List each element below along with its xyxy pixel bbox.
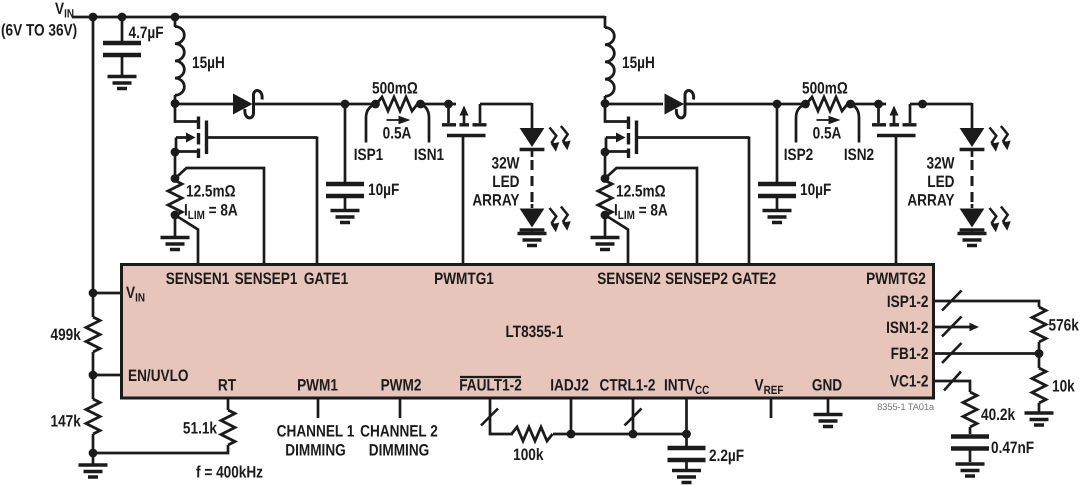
svg-text:0.5A: 0.5A (813, 125, 842, 143)
svg-text:LT8355-1: LT8355-1 (505, 323, 563, 341)
wire 10k to ground (1038, 403, 1041, 412)
bus slash ISP1-2 (942, 291, 962, 311)
light arrows LED D3 (550, 207, 571, 233)
ground C5 (956, 464, 985, 476)
bus slash FAULT1-2 (481, 409, 498, 426)
junction output node ch2 (918, 100, 927, 109)
svg-text:500mΩ: 500mΩ (372, 80, 418, 98)
wire switch node 2 (605, 103, 663, 106)
junction C2 tap (341, 100, 350, 109)
wire IADJ2 stub (570, 398, 573, 434)
wire SENSEP2 (605, 168, 697, 265)
svg-text:576k: 576k (1049, 317, 1080, 335)
svg-text:ILIM = 8A: ILIM = 8A (614, 202, 668, 223)
resistor R5 51.1k (221, 410, 235, 445)
wire RT return to ground rail (93, 445, 228, 453)
wire R2 bottom to ground (174, 215, 177, 237)
svg-text:2.2µF: 2.2µF (709, 447, 744, 465)
svg-text:IADJ2: IADJ2 (550, 377, 589, 395)
svg-text:8355-1 TA01a: 8355-1 TA01a (877, 402, 935, 413)
wire Q1 gate to GATE1 (207, 137, 318, 266)
svg-text:GATE2: GATE2 (732, 270, 776, 288)
wire switch node 1 (175, 103, 233, 106)
junction L1 switch node (171, 99, 180, 108)
svg-text:FAULT1-2: FAULT1-2 (459, 377, 522, 395)
current arrow 0.5A ch2 (817, 119, 830, 121)
ground C2 (331, 211, 360, 223)
svg-text:12.5mΩ: 12.5mΩ (186, 183, 236, 201)
junction R2 bottom SENSEN tap (171, 211, 180, 220)
svg-text:PWM2: PWM2 (381, 377, 422, 395)
wire R4 bottom to ground (604, 215, 607, 237)
junction L2 switch node (601, 99, 610, 108)
inductor L1 15uH (174, 17, 177, 103)
wire RT pin (227, 398, 230, 410)
wire Q2 gate to PWMTG1 (462, 136, 465, 266)
ground left rail (79, 465, 108, 477)
LED D5 top of 32W array ch2 (960, 128, 985, 150)
junction top rail / left rail (89, 13, 98, 22)
svg-text:SENSEN1: SENSEN1 (166, 270, 230, 288)
diode D4 (665, 94, 685, 115)
wire EN/UVLO pin stub (93, 374, 122, 377)
resistor 499k (86, 317, 100, 352)
svg-text:CHANNEL 2: CHANNEL 2 (360, 423, 438, 441)
wire VC1-2 (934, 381, 970, 392)
wire 576k to FB node (1038, 342, 1041, 354)
junction Q2 source node (444, 100, 453, 109)
capacitor C2 10uF (344, 104, 347, 210)
svg-text:EN/UVLO: EN/UVLO (128, 367, 189, 385)
svg-text:FB1-2: FB1-2 (891, 345, 929, 363)
svg-text:ISP1: ISP1 (354, 146, 384, 164)
wire Q4 drain to LED2 string (910, 103, 972, 106)
svg-text:SENSEP2: SENSEP2 (665, 270, 728, 288)
resistor 147k (86, 399, 100, 434)
wire LED1 cathode to ground (531, 231, 534, 234)
current arrow 0.5A (387, 119, 400, 121)
svg-text:ISN2: ISN2 (844, 146, 874, 164)
wire Q2 drain to LED1 string (480, 103, 532, 106)
svg-text:15µH: 15µH (192, 54, 225, 72)
resistor R9 40.2k (963, 392, 977, 427)
svg-text:499k: 499k (51, 326, 82, 344)
svg-text:LED: LED (492, 173, 519, 191)
svg-text:15µH: 15µH (622, 54, 655, 72)
svg-text:ILIM = 8A: ILIM = 8A (184, 202, 238, 223)
svg-text:DIMMING: DIMMING (285, 442, 345, 460)
junction FB divider (1035, 349, 1044, 358)
wire SENSEN1 (175, 215, 198, 265)
svg-text:ARRAY: ARRAY (907, 192, 954, 210)
junction RT return (89, 449, 98, 458)
bus slash CTRL1-2 (625, 409, 642, 426)
junction top rail / L1 (171, 13, 180, 22)
bus slash FB1-2 (942, 343, 962, 363)
transistor Q2 PWM disconnect ch1 (442, 104, 487, 136)
wire CTRL1-2 stub (632, 398, 635, 434)
svg-text:GND: GND (812, 377, 842, 395)
svg-text:CHANNEL 1: CHANNEL 1 (277, 423, 355, 441)
LED D6 bottom of 32W array ch2 (971, 204, 974, 208)
light arrows LED D6 (990, 207, 1011, 233)
svg-text:40.2k: 40.2k (981, 406, 1016, 424)
wire ISP2 hook (796, 105, 804, 143)
resistor R4 12.5mOhm ch2 (598, 181, 612, 216)
svg-text:12.5mΩ: 12.5mΩ (616, 183, 666, 201)
svg-text:147k: 147k (51, 413, 82, 431)
wire ISN1-2 with arrow (934, 326, 970, 329)
wire PWM1 stub (317, 398, 320, 418)
wire 100k to INTVCC node (553, 433, 686, 436)
resistor R1 500mOhm (377, 97, 418, 111)
wire LED2 string top (971, 103, 974, 129)
svg-text:CTRL1-2: CTRL1-2 (600, 377, 656, 395)
inductor L2 15uH (604, 16, 607, 104)
wire Q3 gate to GATE2 (637, 137, 750, 266)
junction CTRL1-2 (629, 430, 638, 439)
svg-text:10k: 10k (1052, 378, 1075, 396)
svg-text:100k: 100k (513, 446, 544, 464)
svg-text:GATE1: GATE1 (304, 270, 348, 288)
wire ISP1-2 (934, 301, 1039, 307)
junction Q1 source (171, 148, 180, 157)
svg-text:ARRAY: ARRAY (472, 192, 519, 210)
svg-text:VIN: VIN (55, 0, 74, 21)
wire INTVCC stub (685, 398, 688, 434)
wire FAULT1-2 pin (490, 398, 513, 434)
wire ISN1 hook (422, 105, 429, 143)
light arrows LED D2 (550, 126, 571, 152)
svg-text:32W: 32W (492, 155, 520, 173)
svg-text:PWMTG2: PWMTG2 (866, 270, 926, 288)
ground R2 ch1 (161, 238, 190, 250)
svg-text:LED: LED (927, 173, 954, 191)
wire VREF stub (770, 398, 773, 418)
svg-text:51.1k: 51.1k (183, 420, 218, 438)
svg-text:ISP1-2: ISP1-2 (887, 293, 929, 311)
bus slash VC1-2 (944, 372, 961, 391)
LED D3 bottom of 32W array ch1 (531, 204, 534, 208)
resistor R6 100k (512, 427, 553, 441)
wire LED1 string top (531, 103, 534, 129)
svg-text:PWM1: PWM1 (297, 377, 338, 395)
svg-text:4.7µF: 4.7µF (129, 24, 164, 42)
svg-text:SENSEN2: SENSEN2 (597, 270, 661, 288)
svg-text:0.47nF: 0.47nF (991, 439, 1034, 457)
wire FB1-2 (934, 352, 1039, 355)
svg-text:ISP2: ISP2 (784, 146, 814, 164)
wire D1 cathode to current sense (254, 103, 376, 106)
transistor Q4 PWM disconnect ch2 (872, 104, 917, 136)
ground C4 (672, 471, 701, 483)
junction R2 top SENSEP tap (171, 174, 180, 183)
junction R4 top SENSEP tap (601, 174, 610, 183)
svg-text:RT: RT (218, 377, 236, 395)
svg-text:SENSEP1: SENSEP1 (235, 270, 298, 288)
transistor Q1 main switch ch1 (175, 104, 207, 158)
svg-text:ISN1: ISN1 (414, 146, 444, 164)
op-amp U1 LT8355-1 IC body (122, 265, 934, 399)
wire R1 to Q2 source (418, 103, 456, 106)
wire Q4 gate to PWMTG2 (895, 136, 898, 266)
wire Q1 source to R2 (174, 152, 177, 180)
wire left VIN rail (92, 17, 95, 465)
wire dashed LED1 array (531, 151, 534, 157)
svg-text:32W: 32W (927, 155, 955, 173)
wire SENSEP1 (175, 168, 264, 265)
junction R3 right (846, 100, 855, 109)
ground GND pin (814, 415, 843, 427)
wire D4 cathode to current sense 2 (686, 103, 807, 106)
junction R1 right (416, 100, 425, 109)
junction Q4 source node (874, 100, 883, 109)
ground LED2 array (958, 234, 987, 246)
ground C1 (108, 77, 137, 89)
svg-text:VC1-2: VC1-2 (890, 373, 929, 391)
junction VIN pin (89, 289, 98, 298)
junction R4 bottom SENSEN tap (601, 211, 610, 220)
wire LED2 cathode to ground (971, 231, 974, 234)
light arrows LED D5 (990, 126, 1011, 152)
wire dashed LED2 array (971, 151, 974, 157)
resistor R3 500mOhm ch2 (807, 97, 848, 111)
wire Q3 source to R4 (604, 152, 607, 180)
capacitor C4 2.2uF (685, 434, 688, 469)
junction IADJ2 (567, 430, 576, 439)
svg-text:500mΩ: 500mΩ (802, 80, 848, 98)
junction C3 tap (773, 100, 782, 109)
capacitor C3 10uF (776, 104, 779, 210)
resistor R8 10k (1038, 354, 1041, 369)
svg-text:f = 400kHz: f = 400kHz (196, 464, 263, 482)
wire PWM2 stub (399, 398, 402, 418)
LED D2 top of 32W array ch1 (520, 128, 545, 150)
transistor Q3 main switch ch2 (605, 104, 637, 158)
ground R4 ch2 (591, 238, 620, 250)
wire VIN pin stub (93, 292, 122, 295)
wire R3 to Q4 source (848, 103, 886, 106)
wire GND pin (827, 398, 830, 414)
diode D1 (233, 94, 253, 115)
svg-text:(6V TO 36V): (6V TO 36V) (1, 22, 77, 40)
wire ISP1 hook (366, 105, 374, 143)
svg-text:PWMTG1: PWMTG1 (434, 270, 494, 288)
capacitor C5 0.47nF (969, 427, 972, 462)
resistor R2 12.5mOhm ch1 (168, 181, 182, 216)
junction INTVCC (682, 430, 691, 439)
ground 10k (1025, 413, 1054, 425)
junction EN/UVLO pin (89, 371, 98, 380)
wire SENSEN2 (605, 215, 628, 265)
svg-text:10µF: 10µF (800, 181, 831, 199)
capacitor C1 4.7uF (121, 17, 124, 76)
junction top rail / C1 (118, 13, 127, 22)
ground LED1 array (518, 234, 547, 246)
ground C3 (763, 211, 792, 223)
wire ISN2 hook (852, 105, 859, 143)
wire VIN top rail (72, 16, 605, 19)
svg-text:10µF: 10µF (368, 181, 399, 199)
junction Q3 source (601, 148, 610, 157)
resistor R7 576k (1032, 307, 1046, 342)
junction R3 left (801, 100, 810, 109)
svg-text:0.5A: 0.5A (383, 125, 412, 143)
svg-text:ISN1-2: ISN1-2 (886, 319, 928, 337)
svg-text:DIMMING: DIMMING (369, 442, 429, 460)
junction R1 left (371, 100, 380, 109)
bus slash ISN1-2 (942, 317, 962, 337)
